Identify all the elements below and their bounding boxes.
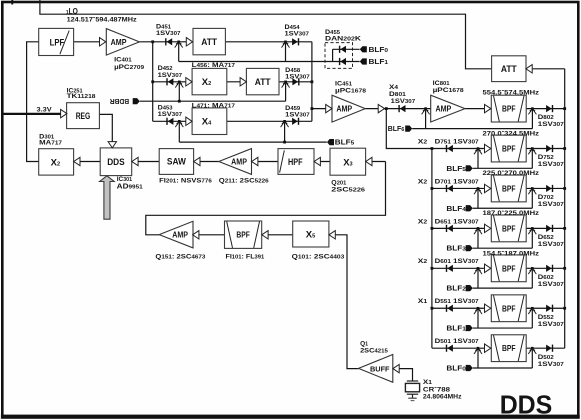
svg-text:L456: MA717: L456: MA717 bbox=[192, 62, 235, 69]
svg-text:µPC2709: µPC2709 bbox=[114, 64, 144, 71]
svg-text:BLF3: BLF3 bbox=[446, 246, 466, 253]
svg-text:BPF: BPF bbox=[502, 223, 516, 233]
svg-text:1SV307: 1SV307 bbox=[285, 31, 310, 38]
svg-text:X2: X2 bbox=[418, 138, 427, 145]
svg-text:1SV307: 1SV307 bbox=[538, 281, 564, 288]
svg-text:X2: X2 bbox=[418, 218, 427, 225]
svg-text:DAN202K: DAN202K bbox=[325, 35, 361, 42]
svg-text:BLF5: BLF5 bbox=[446, 166, 466, 173]
svg-text:D602: D602 bbox=[538, 274, 554, 281]
svg-text:TK11218: TK11218 bbox=[67, 93, 96, 100]
svg-text:IC401: IC401 bbox=[114, 57, 132, 64]
svg-text:BLF1: BLF1 bbox=[369, 59, 389, 66]
svg-text:Q151: 2SC4673: Q151: 2SC4673 bbox=[155, 253, 205, 260]
svg-text:1SV307: 1SV307 bbox=[538, 361, 564, 368]
svg-text:X2: X2 bbox=[418, 178, 427, 185]
svg-text:ATT: ATT bbox=[201, 37, 217, 48]
svg-text:BDBR: BDBR bbox=[110, 97, 129, 104]
svg-text:BPF: BPF bbox=[502, 303, 516, 313]
svg-text:FI101: FL391: FI101: FL391 bbox=[226, 253, 265, 260]
svg-text:1SV307: 1SV307 bbox=[538, 161, 564, 168]
svg-text:CR-788: CR-788 bbox=[423, 385, 450, 394]
svg-text:SAW: SAW bbox=[167, 157, 186, 167]
svg-text:Q101: 2SC4403: Q101: 2SC4403 bbox=[292, 253, 345, 260]
svg-text:3.3V: 3.3V bbox=[37, 107, 53, 114]
svg-text:D702: D702 bbox=[538, 194, 554, 201]
svg-text:AMP: AMP bbox=[111, 37, 127, 47]
svg-text:D752: D752 bbox=[538, 154, 554, 161]
svg-text:BLF0: BLF0 bbox=[369, 47, 389, 54]
svg-text:FI201: NSVS776: FI201: NSVS776 bbox=[159, 178, 212, 185]
svg-text:D652: D652 bbox=[538, 234, 554, 241]
svg-text:D551 1SV307: D551 1SV307 bbox=[435, 298, 479, 305]
svg-text:270.0-324.5MHz: 270.0-324.5MHz bbox=[483, 128, 540, 137]
svg-text:Q1: Q1 bbox=[360, 341, 368, 348]
svg-text:D651 1SV307: D651 1SV307 bbox=[435, 218, 479, 225]
svg-text:BLF2: BLF2 bbox=[446, 286, 466, 293]
svg-text:1SV307: 1SV307 bbox=[158, 111, 183, 118]
svg-text:BLF6: BLF6 bbox=[388, 126, 405, 133]
svg-text:BPF: BPF bbox=[236, 230, 250, 240]
svg-text:187.0-225.0MHz: 187.0-225.0MHz bbox=[483, 208, 540, 217]
svg-text:D501 1SV307: D501 1SV307 bbox=[435, 338, 479, 345]
svg-text:1LO: 1LO bbox=[66, 7, 78, 16]
svg-text:X1: X1 bbox=[423, 379, 432, 386]
svg-text:µPC1678: µPC1678 bbox=[433, 87, 464, 94]
svg-text:HPF: HPF bbox=[288, 157, 303, 168]
svg-text:BPF: BPF bbox=[502, 343, 516, 353]
svg-text:DDS: DDS bbox=[107, 157, 125, 167]
svg-text:1SV307: 1SV307 bbox=[285, 112, 310, 119]
svg-text:IC801: IC801 bbox=[433, 80, 450, 87]
svg-text:D601 1SV307: D601 1SV307 bbox=[435, 258, 479, 265]
svg-text:X2: X2 bbox=[418, 258, 427, 265]
svg-text:µPC1678: µPC1678 bbox=[335, 88, 366, 95]
svg-text:AMP: AMP bbox=[336, 105, 352, 114]
svg-text:24.8064MHz: 24.8064MHz bbox=[423, 393, 462, 400]
svg-text:BLF0: BLF0 bbox=[446, 365, 466, 372]
svg-text:2SC5226: 2SC5226 bbox=[331, 186, 365, 193]
svg-text:124.517-594.487MHz: 124.517-594.487MHz bbox=[67, 15, 138, 24]
svg-text:AMP: AMP bbox=[231, 157, 247, 166]
svg-text:BPF: BPF bbox=[502, 263, 516, 273]
svg-text:DDS: DDS bbox=[500, 392, 553, 420]
svg-text:1SV307: 1SV307 bbox=[538, 321, 564, 328]
svg-text:154.5-187.0MHz: 154.5-187.0MHz bbox=[483, 248, 540, 257]
svg-text:REG: REG bbox=[76, 111, 91, 122]
svg-text:AMP: AMP bbox=[172, 231, 188, 240]
svg-text:1SV307: 1SV307 bbox=[156, 30, 181, 37]
svg-text:Q211: 2SC5226: Q211: 2SC5226 bbox=[219, 178, 269, 185]
svg-text:ATT: ATT bbox=[501, 64, 517, 75]
svg-text:X4: X4 bbox=[389, 84, 399, 91]
svg-text:D801: D801 bbox=[389, 91, 406, 98]
svg-text:1SV307: 1SV307 bbox=[538, 201, 564, 208]
svg-text:225.0-270.0MHz: 225.0-270.0MHz bbox=[483, 168, 540, 177]
svg-text:D802: D802 bbox=[538, 114, 554, 121]
svg-text:X1: X1 bbox=[418, 298, 427, 305]
svg-text:MA717: MA717 bbox=[39, 139, 62, 146]
svg-text:D552: D552 bbox=[538, 314, 554, 321]
svg-text:BPF: BPF bbox=[502, 144, 516, 154]
svg-text:ATT: ATT bbox=[255, 77, 271, 88]
svg-text:BPF: BPF bbox=[502, 183, 516, 193]
svg-text:BLF1: BLF1 bbox=[446, 326, 466, 333]
svg-text:IC451: IC451 bbox=[335, 81, 352, 88]
svg-text:1SV307: 1SV307 bbox=[285, 74, 310, 81]
svg-text:BPF: BPF bbox=[502, 104, 516, 114]
svg-text:1SV307: 1SV307 bbox=[538, 121, 564, 128]
svg-text:BLF5: BLF5 bbox=[335, 140, 355, 147]
svg-text:554.5-574.5MHz: 554.5-574.5MHz bbox=[483, 87, 540, 96]
svg-text:1SV307: 1SV307 bbox=[391, 98, 416, 105]
svg-text:D701 1SV307: D701 1SV307 bbox=[435, 178, 479, 185]
svg-text:AMP: AMP bbox=[435, 105, 451, 114]
svg-text:BUFF: BUFF bbox=[370, 366, 390, 373]
svg-text:BLF4: BLF4 bbox=[446, 206, 467, 213]
svg-text:1SV307: 1SV307 bbox=[158, 72, 183, 79]
svg-text:1SV307: 1SV307 bbox=[538, 241, 564, 248]
svg-text:LPF: LPF bbox=[50, 38, 65, 49]
svg-text:L471: MA717: L471: MA717 bbox=[192, 102, 235, 109]
svg-text:2SC4215: 2SC4215 bbox=[360, 348, 388, 355]
svg-text:D502: D502 bbox=[538, 354, 554, 361]
svg-text:D751 1SV307: D751 1SV307 bbox=[435, 138, 479, 145]
